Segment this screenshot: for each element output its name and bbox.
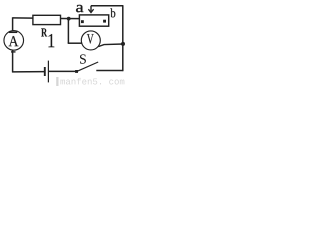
wire: ammeter bottom to bottom-left corner [12,50,14,72]
voltmeter letter V [87,34,94,43]
node: junction dot after R1 [67,17,71,21]
node: junction dot at voltmeter right lead [121,42,125,46]
wire: R1 right lead to rheostat [61,18,80,20]
wire: left vertical, corner down to ammeter top [12,17,14,31]
ammeter top terminal bar [9,31,17,33]
ammeter letter A [9,36,19,46]
resistor R1 box [33,15,61,24]
rheostat box [79,15,108,26]
rheostat right terminal square [103,20,106,23]
wire: right vertical [122,6,124,71]
wire: top horizontal from top-left corner to R1 [13,17,33,19]
rheostat slider arrow [90,6,92,12]
wire: bottom-left horizontal to battery [12,71,44,73]
battery short thick plate [44,67,46,76]
label a [76,5,83,12]
wire: slider top wire to top-right corner [91,5,124,7]
ammeter bottom terminal bar [11,51,16,53]
watermark bar [56,77,58,86]
label R1 [41,28,47,36]
label S [80,54,86,63]
wire: voltmeter right lead [98,44,123,47]
battery long thin plate [47,61,49,83]
background [0,0,127,86]
wire: switch right contact to bottom-right corner [96,70,123,72]
voltmeter V circle [81,31,100,50]
wire: voltmeter branch vertical from junction [67,19,69,44]
wire: voltmeter left lead [68,42,83,44]
watermark text manfen5.com [60,80,65,85]
rheostat left terminal square [81,20,84,23]
switch blade [77,62,98,71]
label b [110,8,115,17]
wire: battery to switch pivot [48,70,75,72]
ammeter circle [4,31,24,51]
switch pivot square [75,70,78,73]
